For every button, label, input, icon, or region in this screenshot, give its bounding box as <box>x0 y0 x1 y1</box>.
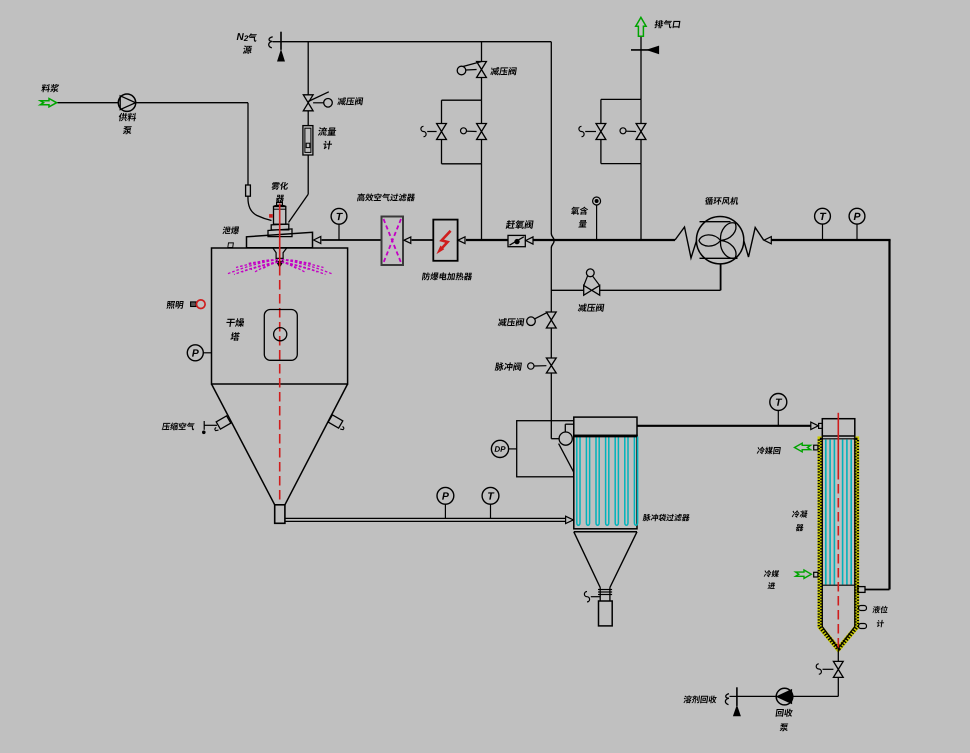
DP instrument <box>491 440 508 457</box>
red marker on atomizer <box>270 215 273 218</box>
explosion-proof heater 防爆电加热器 <box>433 220 457 261</box>
N2 drop pipe with hop over duct <box>550 42 552 234</box>
bag filter body 脉冲袋过滤器 <box>574 435 637 528</box>
label 防爆电加热器 <box>422 272 473 280</box>
flex connector right <box>744 228 764 258</box>
battery limit marker N2 <box>269 37 273 48</box>
pipe PRV1 to flowmeter <box>307 111 309 126</box>
pulse valve 脉冲阀 <box>546 358 556 366</box>
label 料浆 <box>41 84 59 92</box>
label 干燥塔 <box>226 318 245 327</box>
manual valve left <box>437 124 447 132</box>
drying tower lid <box>247 232 313 247</box>
duct arrow into HEPA <box>404 237 411 243</box>
manual valve right <box>636 124 646 132</box>
flow arrow into fan <box>764 237 771 244</box>
label 减压阀 <box>490 67 517 75</box>
pulse blower <box>551 438 559 440</box>
pressure reducing valve 减压阀 PRV1 <box>303 95 313 103</box>
branch pipe <box>481 42 483 62</box>
duct pipe <box>322 239 382 241</box>
duct pipe heater-side to fan line <box>533 239 675 241</box>
pump 供料泵 <box>118 94 135 111</box>
coolant inlet stub <box>814 572 818 577</box>
coolant inlet green arrow <box>796 570 812 578</box>
drain valve <box>833 661 843 669</box>
pressure instrument P <box>444 504 446 518</box>
body bottom flange <box>574 531 637 533</box>
label 冷媒进 <box>764 570 780 577</box>
flex connector left <box>675 227 697 258</box>
pipe feed to pump <box>58 102 119 104</box>
atomizer 雾化器 <box>274 207 286 225</box>
oxygen analyzer 氧含量 <box>593 197 601 205</box>
pressure reducing valve 减压阀 PRV2 <box>477 62 487 70</box>
collection pot <box>599 601 613 626</box>
label 泄爆口 <box>222 226 240 234</box>
bag filter plenum <box>574 417 637 435</box>
downcomer pipe from fan line to condenser outlet <box>888 240 890 590</box>
label N2气源 <box>237 33 244 40</box>
rotary valve handle <box>584 592 589 602</box>
filter neck flanges <box>599 588 601 602</box>
temperature instrument T <box>338 224 340 240</box>
label 雾化器 <box>271 182 288 190</box>
label 脉冲阀 <box>495 362 522 370</box>
label 减压阀 <box>337 97 363 105</box>
circulation fan 循环风机 <box>696 217 743 264</box>
duct arrow into purge device <box>526 237 533 244</box>
DP sensing frame <box>517 421 574 477</box>
red centerline tower <box>279 204 281 267</box>
bypass loop pipes <box>481 78 483 101</box>
hose coupling <box>246 185 251 196</box>
manual valve left <box>596 124 606 132</box>
label 减压阀 <box>578 304 605 312</box>
label 排气口 <box>654 20 680 28</box>
recovery pump 回收泵 <box>776 688 793 705</box>
battery limit marker solvent <box>736 687 738 706</box>
battery limit marker exhaust <box>631 49 650 51</box>
lighting 照明 <box>166 301 184 309</box>
manual valve right <box>477 124 487 132</box>
exhaust pipe 排气口 <box>640 37 642 100</box>
exhaust bypass loop <box>601 98 641 100</box>
duct arrow into tower <box>314 237 321 244</box>
fan bottom bypass pipe <box>720 264 722 290</box>
coolant return stub <box>814 445 818 450</box>
level gauge stubs 液位计 <box>859 606 867 611</box>
label 压缩空气 <box>162 422 196 430</box>
label 减压阀 <box>498 318 525 326</box>
pressure reducing valve 减压阀 PRV3 <box>546 312 556 320</box>
flow meter 流量计 <box>303 126 313 155</box>
tower cone <box>212 384 275 505</box>
tube sheet line <box>574 436 637 438</box>
label 流量计 <box>318 127 337 136</box>
red centerline condenser <box>837 413 839 470</box>
product duct to bag filter <box>285 517 566 519</box>
tower outlet stub <box>275 505 285 524</box>
condenser inlet arrow <box>811 422 819 429</box>
temperature instrument T <box>822 224 824 240</box>
pressure reducing valve 减压阀 PRV4 <box>584 285 592 295</box>
pipe flowmeter to atomizer <box>307 155 309 194</box>
temperature instrument T <box>490 504 492 518</box>
label 冷媒回 <box>757 447 781 455</box>
N2 header pipe <box>273 41 552 43</box>
label 冷凝器 <box>792 510 808 517</box>
condenser top box <box>822 419 855 436</box>
temperature instrument T <box>777 411 779 426</box>
spray nozzle <box>273 248 287 259</box>
HEPA filter 高效空气过滤器 <box>382 217 404 266</box>
condenser shell <box>821 436 823 627</box>
coolant return green arrow <box>795 443 811 452</box>
pressure instrument P tower <box>203 352 211 354</box>
compressed air blaster right <box>328 415 343 428</box>
pipe to recovery pump <box>793 695 839 697</box>
atomizer platform <box>268 229 292 237</box>
oxygen purge valve 赶氧阀 <box>508 235 525 246</box>
branch pipe to PRV1 <box>307 42 309 95</box>
filter cone <box>574 532 600 588</box>
pipe pump to atomizer <box>136 102 248 104</box>
recirculation pipe <box>771 239 890 241</box>
label 脉冲袋过滤器 <box>643 514 691 521</box>
label 溶剂回收 <box>683 695 717 703</box>
duct arrow into heater <box>458 237 465 244</box>
condenser drain pipe <box>837 648 839 661</box>
pressure instrument P <box>856 224 858 240</box>
tower body 干燥塔 <box>212 248 348 384</box>
manhole <box>264 310 297 361</box>
pipe to battery limit <box>737 695 776 697</box>
exhaust green arrow <box>636 17 646 36</box>
spray fan (magenta) <box>260 260 278 262</box>
condenser tubes (cyan) <box>825 440 827 585</box>
feed hose curve <box>248 196 272 220</box>
feed inlet green arrow <box>40 99 56 107</box>
gas outlet stub <box>858 587 865 593</box>
label 高效空气过滤器 <box>357 193 416 201</box>
compressed air blaster left <box>203 421 205 430</box>
filter bags (cyan) <box>577 437 580 526</box>
lower tube sheet <box>822 584 855 586</box>
condenser jacket (yellow dotted) 冷凝器 <box>820 439 857 649</box>
gas outlet pipe to condenser <box>637 425 811 427</box>
